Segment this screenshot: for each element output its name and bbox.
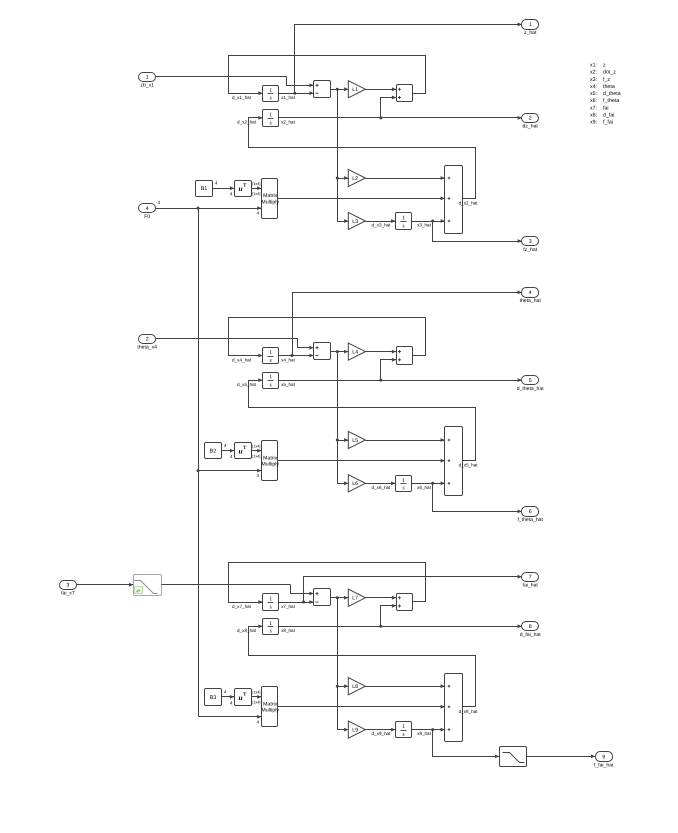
svg-text:x3_hat: x3_hat	[417, 223, 432, 228]
svg-text:B3: B3	[210, 695, 217, 701]
svg-text:1: 1	[269, 350, 272, 356]
svg-text:6: 6	[529, 509, 532, 515]
svg-text:Multiply: Multiply	[261, 461, 279, 467]
svg-text:d_x8_hat: d_x8_hat	[459, 709, 479, 714]
svg-text:zb_x1: zb_x1	[140, 83, 154, 89]
svg-text:u: u	[239, 693, 243, 702]
svg-text:L8: L8	[352, 684, 358, 690]
svg-text:x7:: x7:	[590, 105, 597, 111]
svg-text:L1: L1	[352, 87, 358, 93]
svg-text:u: u	[239, 447, 243, 456]
svg-text:d_theta_hat: d_theta_hat	[517, 386, 544, 392]
svg-text:1: 1	[269, 375, 272, 381]
svg-text:d_x1_hat: d_x1_hat	[232, 95, 252, 100]
svg-text:1: 1	[402, 478, 405, 484]
svg-text:1: 1	[269, 113, 272, 119]
svg-text:3: 3	[66, 583, 69, 589]
svg-text:[1x4]: [1x4]	[252, 444, 260, 448]
svg-text:4: 4	[529, 290, 532, 296]
svg-text:[1x4]: [1x4]	[252, 454, 260, 458]
svg-text:x2:: x2:	[590, 70, 597, 76]
svg-text:x4:: x4:	[590, 84, 597, 90]
svg-text:d_x4_hat: d_x4_hat	[232, 357, 252, 362]
svg-text:L7: L7	[352, 596, 358, 602]
svg-text:[1x4]: [1x4]	[252, 701, 260, 705]
svg-text:4: 4	[146, 206, 149, 212]
svg-text:7: 7	[529, 575, 532, 581]
svg-text:1: 1	[402, 216, 405, 222]
svg-text:d_fai: d_fai	[603, 113, 615, 119]
svg-text:L6: L6	[352, 481, 358, 487]
svg-text:fai_hat: fai_hat	[523, 583, 539, 589]
svg-text:d_x5_hat: d_x5_hat	[459, 463, 479, 468]
svg-text:1: 1	[146, 75, 149, 81]
svg-text:theta_x4: theta_x4	[137, 344, 157, 350]
svg-text:x7_hat: x7_hat	[281, 604, 296, 609]
svg-text:d_x2_hat: d_x2_hat	[459, 200, 479, 205]
svg-text:3: 3	[529, 239, 532, 245]
svg-text:2: 2	[529, 116, 532, 122]
svg-text:Matrix: Matrix	[263, 702, 278, 708]
svg-text:d_x6_hat: d_x6_hat	[372, 485, 392, 490]
svg-text:8: 8	[529, 624, 532, 630]
svg-text:5: 5	[529, 378, 532, 384]
svg-text:f_theta_hat: f_theta_hat	[517, 517, 543, 523]
svg-text:L9: L9	[352, 728, 358, 734]
svg-text:1: 1	[402, 724, 405, 730]
svg-text:d_fai_hat: d_fai_hat	[520, 632, 542, 638]
svg-text:d_x2_hat: d_x2_hat	[237, 120, 257, 125]
svg-text:x5_hat: x5_hat	[281, 382, 296, 387]
svg-text:F0: F0	[144, 214, 150, 220]
svg-text:L4: L4	[352, 350, 358, 356]
svg-text:B2: B2	[210, 449, 217, 455]
svg-text:fai_x7: fai_x7	[61, 591, 75, 597]
svg-text:L5: L5	[352, 438, 358, 444]
svg-text:x5:: x5:	[590, 91, 597, 97]
svg-text:z: z	[603, 63, 606, 69]
svg-text:Multiply: Multiply	[261, 708, 279, 714]
svg-text:fai: fai	[603, 105, 609, 111]
svg-text:1: 1	[529, 22, 532, 28]
svg-text:Multiply: Multiply	[261, 199, 279, 205]
svg-text:x1:: x1:	[590, 63, 597, 69]
svg-text:Matrix: Matrix	[263, 193, 278, 199]
svg-text:x3:: x3:	[590, 77, 597, 83]
svg-text:x6:: x6:	[590, 98, 597, 104]
svg-text:f_theta: f_theta	[603, 98, 619, 104]
svg-text:x8:: x8:	[590, 113, 597, 119]
svg-text:dot_z: dot_z	[603, 70, 616, 76]
svg-text:x1_hat: x1_hat	[281, 95, 296, 100]
svg-text:9: 9	[602, 754, 605, 760]
svg-text:fz_hat: fz_hat	[523, 247, 537, 253]
svg-text:d_x3_hat: d_x3_hat	[372, 223, 392, 228]
svg-text:1: 1	[269, 88, 272, 94]
svg-text:x8_hat: x8_hat	[281, 628, 296, 633]
svg-text:[1x4]: [1x4]	[252, 691, 260, 695]
svg-text:f_fai_hat: f_fai_hat	[594, 762, 614, 768]
svg-text:u: u	[239, 184, 243, 193]
svg-text:d_theta: d_theta	[603, 91, 621, 97]
svg-text:x9_hat: x9_hat	[417, 731, 432, 736]
svg-text:x2_hat: x2_hat	[281, 120, 296, 125]
svg-text:d_x8_hat: d_x8_hat	[237, 628, 257, 633]
svg-text:d_x5_hat: d_x5_hat	[237, 382, 257, 387]
svg-text:x6_hat: x6_hat	[417, 485, 432, 490]
svg-text:d_x9_hat: d_x9_hat	[372, 731, 392, 736]
svg-text:dz_hat: dz_hat	[523, 124, 539, 130]
svg-text:L3: L3	[352, 219, 358, 225]
svg-text:x4_hat: x4_hat	[281, 357, 296, 362]
svg-text:1: 1	[269, 621, 272, 627]
svg-text:f_fai: f_fai	[603, 120, 613, 126]
svg-text:d_x7_hat: d_x7_hat	[232, 604, 252, 609]
svg-text:theta: theta	[603, 84, 615, 90]
svg-text:L2: L2	[352, 176, 358, 182]
svg-text:z_hat: z_hat	[524, 30, 537, 36]
svg-text:x9:: x9:	[590, 120, 597, 126]
svg-text:[1x4]: [1x4]	[252, 182, 260, 186]
svg-text:B1: B1	[201, 186, 208, 192]
svg-text:f_z: f_z	[603, 77, 610, 83]
svg-text:1: 1	[269, 597, 272, 603]
svg-text:2: 2	[146, 336, 149, 342]
svg-text:theta_hat: theta_hat	[520, 298, 542, 304]
svg-text:[1x4]: [1x4]	[252, 192, 260, 196]
